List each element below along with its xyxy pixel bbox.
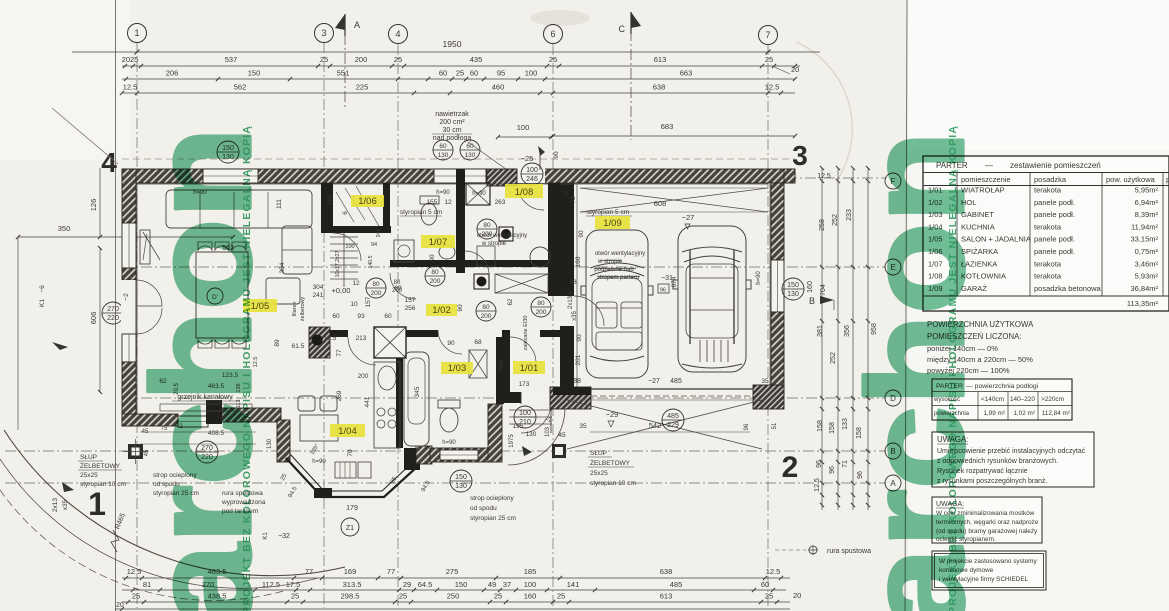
driveway X <box>567 400 762 449</box>
svg-text:35: 35 <box>761 378 769 385</box>
svg-text:200: 200 <box>355 55 368 64</box>
svg-text:37: 37 <box>503 580 511 589</box>
svg-text:179: 179 <box>346 505 358 512</box>
svg-text:styropian 10 cm: styropian 10 cm <box>80 481 126 488</box>
svg-text:1: 1 <box>88 486 106 522</box>
yellow room labels <box>513 361 545 374</box>
svg-text:posadzka: posadzka <box>1034 175 1067 184</box>
svg-text:29: 29 <box>403 580 411 589</box>
svg-text:704: 704 <box>820 284 827 296</box>
left dimensions <box>99 168 101 237</box>
svg-text:96: 96 <box>829 466 836 474</box>
svg-text:246: 246 <box>526 176 538 183</box>
svg-text:638: 638 <box>653 83 666 92</box>
left wall window 2 <box>122 334 136 362</box>
svg-text:12.5: 12.5 <box>324 335 337 342</box>
svg-text:12.5: 12.5 <box>123 83 138 92</box>
svg-text:25: 25 <box>399 592 407 601</box>
Z1 bubble <box>341 518 359 536</box>
svg-text:strop ocieplony: strop ocieplony <box>470 495 514 502</box>
terrace door opening left <box>121 280 137 334</box>
svg-text:60: 60 <box>466 143 474 150</box>
car 2 suv <box>673 226 751 372</box>
scan artifact arc <box>796 42 852 182</box>
svg-text:80: 80 <box>431 269 439 276</box>
spizarka / bath wall <box>383 183 390 233</box>
svg-text:100: 100 <box>517 123 530 132</box>
svg-text:250: 250 <box>447 592 460 601</box>
svg-text:460: 460 <box>492 83 505 92</box>
svg-text:683: 683 <box>661 122 674 131</box>
svg-text:246: 246 <box>376 229 382 238</box>
wiatrolap south wall <box>502 392 572 403</box>
svg-text:150: 150 <box>248 69 261 78</box>
svg-text:panele podł.: panele podł. <box>1034 210 1075 219</box>
svg-text:68: 68 <box>569 279 577 286</box>
svg-text:542: 542 <box>649 421 662 430</box>
svg-text:130: 130 <box>465 152 476 159</box>
garage door from hall arc <box>574 296 604 326</box>
svg-text:537: 537 <box>225 55 238 64</box>
svg-text:210: 210 <box>519 419 531 426</box>
svg-text:2: 2 <box>782 451 799 484</box>
svg-text:252: 252 <box>830 352 837 364</box>
svg-text:485: 485 <box>670 580 683 589</box>
svg-text:30 cm: 30 cm <box>442 127 461 134</box>
attic hatch X-box <box>495 274 548 293</box>
svg-text:93: 93 <box>357 313 365 320</box>
svg-text:100: 100 <box>525 69 538 78</box>
svg-text:1950: 1950 <box>443 39 462 49</box>
boiler tank <box>530 247 550 267</box>
svg-text:−27: −27 <box>682 213 695 222</box>
svg-text:archon: archon <box>839 131 993 611</box>
svg-text:h=90: h=90 <box>756 271 762 285</box>
svg-text:12.5: 12.5 <box>766 567 781 576</box>
svg-text:x35: x35 <box>572 311 578 321</box>
svg-text:20: 20 <box>793 591 801 600</box>
svg-text:200: 200 <box>430 278 441 285</box>
spizarka south wall <box>321 226 391 233</box>
svg-text:od spodu: od spodu <box>470 505 497 512</box>
svg-text:229: 229 <box>667 422 679 429</box>
bath 1/03 south wall <box>430 448 490 462</box>
garage X brace top <box>580 188 768 212</box>
svg-text:45: 45 <box>558 432 566 439</box>
svg-text:3: 3 <box>321 28 326 38</box>
svg-text:12.5: 12.5 <box>817 173 831 180</box>
note box 1 <box>932 432 1094 487</box>
entrance side canopy arc <box>508 408 565 465</box>
svg-text:61.5: 61.5 <box>292 343 305 350</box>
circled 270/220 left <box>102 302 124 324</box>
kotlownia door gap top <box>517 168 545 183</box>
flue block hall <box>474 274 489 289</box>
svg-text:96: 96 <box>816 460 823 468</box>
svg-text:25: 25 <box>320 55 328 64</box>
svg-text:485: 485 <box>667 413 679 420</box>
kitchen counter <box>374 362 400 448</box>
svg-text:25: 25 <box>765 592 773 601</box>
terrace outline <box>17 237 19 430</box>
svg-text:140.5: 140.5 <box>368 255 374 268</box>
tv cabinet <box>140 230 150 264</box>
svg-text:206: 206 <box>166 69 179 78</box>
svg-text:60: 60 <box>761 580 769 589</box>
svg-text:638: 638 <box>660 567 673 576</box>
svg-text:112,84 m²: 112,84 m² <box>1042 410 1070 417</box>
svg-text:K1: K1 <box>39 299 46 307</box>
vents in top wall <box>434 169 458 183</box>
svg-text:562: 562 <box>234 83 247 92</box>
svg-text:12: 12 <box>352 280 360 287</box>
svg-text:90: 90 <box>429 254 436 262</box>
svg-text:130: 130 <box>438 152 449 159</box>
bath 1/07 toilet <box>420 196 439 204</box>
svg-text:200 cm²: 200 cm² <box>439 119 465 126</box>
svg-text:panele podł.: panele podł. <box>1034 198 1075 207</box>
svg-text:150: 150 <box>787 282 799 289</box>
svg-text:5: 5 <box>564 191 568 198</box>
svg-text:51: 51 <box>772 422 778 429</box>
svg-text:25: 25 <box>291 592 299 601</box>
door arcs interior <box>333 233 361 261</box>
section flag C <box>630 12 632 34</box>
spizarka shelves <box>336 192 354 222</box>
svg-text:25: 25 <box>557 592 565 601</box>
svg-text:6: 6 <box>550 29 555 39</box>
frame line right <box>905 0 907 611</box>
sofa L-shape <box>166 190 312 304</box>
svg-text:pow. użytkowa: pow. użytkowa <box>1106 175 1156 184</box>
left wall <box>122 169 136 223</box>
slup pier garage <box>552 444 566 458</box>
svg-text:−25: −25 <box>521 154 534 163</box>
svg-text:113,35m²: 113,35m² <box>1127 299 1159 308</box>
svg-text:80: 80 <box>537 300 545 307</box>
svg-text:terakota: terakota <box>1034 186 1062 195</box>
grid bubbles <box>128 24 147 43</box>
svg-text:68: 68 <box>474 339 482 346</box>
svg-text:130: 130 <box>787 291 799 298</box>
svg-text:1/04: 1/04 <box>338 426 357 437</box>
svg-text:ŻELBETOWY: ŻELBETOWY <box>590 458 631 467</box>
svg-text:90: 90 <box>447 340 455 347</box>
svg-text:+0,00: +0,00 <box>332 286 351 295</box>
inner face lines of outer walls <box>136 183 768 185</box>
svg-text:8,39m²: 8,39m² <box>1135 210 1159 219</box>
kitchen bench corner <box>298 396 338 441</box>
svg-text:130: 130 <box>526 431 537 438</box>
right dimension columns <box>821 168 823 510</box>
frame line left <box>115 0 117 611</box>
svg-text:49: 49 <box>488 580 496 589</box>
svg-text:298.5: 298.5 <box>341 592 360 601</box>
svg-text:25x25: 25x25 <box>80 472 98 479</box>
svg-text:−2: −2 <box>544 417 552 424</box>
svg-text:674: 674 <box>671 276 678 287</box>
svg-text:225: 225 <box>356 83 369 92</box>
svg-text:zalecane EI30: zalecane EI30 <box>523 316 529 351</box>
svg-text:25: 25 <box>494 592 502 601</box>
svg-text:256: 256 <box>405 305 416 312</box>
svg-text:77: 77 <box>387 567 395 576</box>
dining table <box>196 252 248 338</box>
svg-text:77: 77 <box>305 567 313 576</box>
svg-text:11,94m²: 11,94m² <box>1131 222 1158 231</box>
svg-text:80: 80 <box>372 281 380 288</box>
note box 3 schiedel <box>932 551 1046 590</box>
section letter bubbles <box>885 173 901 189</box>
svg-text:2025: 2025 <box>122 55 139 64</box>
svg-text:150: 150 <box>455 580 468 589</box>
bay corner blocks <box>314 488 332 498</box>
svg-text:173: 173 <box>519 381 530 388</box>
svg-text:3,46m²: 3,46m² <box>1135 259 1159 268</box>
svg-text:1/07: 1/07 <box>429 237 448 248</box>
salon window left <box>122 223 136 268</box>
svg-text:panele podł.: panele podł. <box>1034 247 1075 256</box>
svg-text:70: 70 <box>347 449 354 457</box>
svg-text:1/03: 1/03 <box>448 363 467 374</box>
kitchen / bath wall <box>396 337 403 448</box>
svg-text:275: 275 <box>446 567 459 576</box>
svg-text:C: C <box>619 24 626 34</box>
svg-text:terakota: terakota <box>1034 272 1062 281</box>
svg-text:25: 25 <box>765 55 773 64</box>
svg-text:94: 94 <box>371 242 377 248</box>
svg-text:styropian 5 cm: styropian 5 cm <box>400 209 442 216</box>
svg-text:169: 169 <box>344 567 357 576</box>
stair block near Z1 <box>335 462 356 478</box>
svg-text:213: 213 <box>356 335 367 342</box>
svg-text:1,02 m²: 1,02 m² <box>1013 410 1035 417</box>
svg-text:270: 270 <box>107 306 119 313</box>
svg-text:304: 304 <box>313 284 324 291</box>
roof overhang dash line <box>122 158 795 160</box>
left wall lower <box>122 362 136 426</box>
entrance steps <box>509 409 552 411</box>
svg-text:33,15m²: 33,15m² <box>1130 235 1158 244</box>
kotlownia entry jamb <box>487 169 517 186</box>
bath 1/03 tub <box>404 352 429 446</box>
svg-text:0,75m²: 0,75m² <box>1135 247 1159 256</box>
svg-text:435: 435 <box>470 55 483 64</box>
column pier left <box>128 444 143 459</box>
svg-text:6,94m²: 6,94m² <box>1135 198 1159 207</box>
svg-text:2x13,5: 2x13,5 <box>568 290 574 309</box>
svg-text:archon: archon <box>122 127 280 611</box>
svg-text:h=90: h=90 <box>436 190 450 196</box>
svg-text:25x25: 25x25 <box>590 470 608 477</box>
garage east wall <box>771 183 784 260</box>
svg-text:185: 185 <box>524 567 537 576</box>
svg-text:200: 200 <box>481 313 492 320</box>
svg-text:3: 3 <box>792 140 808 171</box>
washer kotlownia <box>477 246 495 266</box>
svg-text:613: 613 <box>660 592 673 601</box>
salon south window band <box>178 416 208 427</box>
bath 1/03 east wall <box>496 337 504 404</box>
svg-text:105: 105 <box>328 194 334 205</box>
svg-text:h=90: h=90 <box>442 440 456 446</box>
hall south walls <box>390 330 438 337</box>
svg-text:1/02: 1/02 <box>432 305 451 316</box>
svg-text:−29: −29 <box>606 410 619 419</box>
svg-text:258: 258 <box>819 219 826 231</box>
scan diagonal top-left <box>52 108 118 164</box>
car 1 sedan <box>581 230 653 378</box>
salon S corner block <box>206 400 222 424</box>
svg-text:styropian 5 cm: styropian 5 cm <box>587 209 629 216</box>
svg-text:h=90: h=90 <box>472 191 486 197</box>
svg-text:5,95m²: 5,95m² <box>1135 186 1159 195</box>
svg-text:200: 200 <box>371 290 382 297</box>
svg-text:stropem parteru: stropem parteru <box>597 275 639 281</box>
svg-text:155: 155 <box>427 199 438 206</box>
kotlownia south wall <box>465 260 552 267</box>
svg-text:60: 60 <box>439 69 447 78</box>
svg-text:157: 157 <box>365 296 372 307</box>
kotlownia chimney block <box>466 183 490 205</box>
svg-text:141: 141 <box>567 580 580 589</box>
svg-text:60: 60 <box>332 313 340 320</box>
svg-text:200: 200 <box>536 309 547 316</box>
svg-text:90: 90 <box>457 304 464 312</box>
svg-text:80: 80 <box>483 222 491 229</box>
svg-text:381: 381 <box>817 325 824 337</box>
svg-text:w stropie: w stropie <box>597 259 623 265</box>
svg-text:7: 7 <box>765 30 770 40</box>
svg-text:Z1: Z1 <box>346 525 354 532</box>
svg-text:90: 90 <box>576 334 583 342</box>
svg-text:4: 4 <box>395 29 400 39</box>
wiatrolap west wall <box>502 330 510 392</box>
bath 1/07 south wall <box>390 260 465 267</box>
svg-text:12.5: 12.5 <box>814 478 821 492</box>
svg-text:663: 663 <box>680 69 693 78</box>
svg-text:485: 485 <box>670 378 682 385</box>
svg-text:nawietrzak: nawietrzak <box>435 111 469 118</box>
svg-text:terakota: terakota <box>1034 222 1062 231</box>
svg-text:160: 160 <box>575 256 582 267</box>
front door arc <box>520 392 522 404</box>
top wall <box>122 169 795 183</box>
dims under salon <box>140 431 256 433</box>
garage west wall <box>560 183 574 296</box>
svg-text:10: 10 <box>350 301 358 308</box>
kotlownia / garage wall <box>548 183 560 296</box>
top dimension lines <box>72 51 820 53</box>
svg-text:60: 60 <box>384 313 392 320</box>
svg-text:36,84m²: 36,84m² <box>1130 284 1158 293</box>
svg-text:201: 201 <box>575 354 582 365</box>
wall right of bay <box>416 446 432 464</box>
svg-text:1975: 1975 <box>509 434 515 448</box>
svg-text:h=90: h=90 <box>312 459 326 465</box>
svg-text:styropian 10 cm: styropian 10 cm <box>590 480 636 487</box>
svg-text:90: 90 <box>553 151 560 159</box>
garage south wall piers <box>550 387 591 409</box>
east gable wall upper <box>784 169 795 183</box>
salon window top <box>203 169 258 183</box>
salon / spizarka wall <box>321 183 333 232</box>
svg-text:A: A <box>354 20 360 30</box>
svg-text:606: 606 <box>89 312 98 325</box>
svg-text:90: 90 <box>578 230 585 238</box>
svg-text:60: 60 <box>470 69 478 78</box>
svg-text:60: 60 <box>439 143 447 150</box>
svg-text:B: B <box>809 296 815 306</box>
rura spustowa right <box>809 546 817 554</box>
dining south wall <box>222 408 281 422</box>
svg-text:SŁUP: SŁUP <box>80 454 97 461</box>
boiler kotlownia <box>499 227 513 241</box>
svg-text:88: 88 <box>573 378 581 385</box>
svg-text:35: 35 <box>579 423 587 430</box>
svg-text:x35: x35 <box>62 499 69 510</box>
svg-text:25: 25 <box>394 55 402 64</box>
chimney pier <box>309 327 330 358</box>
svg-text:80: 80 <box>394 280 401 286</box>
svg-text:150: 150 <box>455 474 467 481</box>
svg-text:12: 12 <box>444 199 452 206</box>
svg-text:podpewne nad: podpewne nad <box>594 267 633 273</box>
svg-text:160: 160 <box>524 592 537 601</box>
svg-text:zestawienie pomieszczeń: zestawienie pomieszczeń <box>1010 161 1101 170</box>
svg-text:1/06: 1/06 <box>358 196 377 207</box>
kitchen bay window walls <box>286 458 418 497</box>
svg-text:SŁUP: SŁUP <box>590 450 607 457</box>
svg-text:441: 441 <box>364 396 371 407</box>
svg-text:25: 25 <box>549 55 557 64</box>
svg-text:PROJEKT BEZ KOLOROWEGO NAPISU: PROJEKT BEZ KOLOROWEGO NAPISU I HOLOGRAM… <box>241 125 253 611</box>
svg-text:posadzka betonowa: posadzka betonowa <box>1034 284 1102 293</box>
entrance west wall <box>488 404 502 462</box>
svg-text:panele podł.: panele podł. <box>1034 235 1075 244</box>
svg-text:350: 350 <box>58 224 71 233</box>
svg-text:64.5: 64.5 <box>418 580 433 589</box>
svg-text:1/08: 1/08 <box>515 187 534 198</box>
svg-text:200: 200 <box>482 231 493 238</box>
svg-text:158: 158 <box>829 422 836 434</box>
floor area table <box>932 379 1072 420</box>
svg-text:96: 96 <box>660 288 666 294</box>
shaft pier with X <box>374 327 406 358</box>
svg-text:100: 100 <box>519 410 531 417</box>
svg-text:12.5: 12.5 <box>765 83 780 92</box>
svg-text:73: 73 <box>570 196 577 204</box>
svg-text:terakota: terakota <box>1034 259 1062 268</box>
svg-text:96: 96 <box>744 423 750 430</box>
svg-text:5,93m²: 5,93m² <box>1135 272 1159 281</box>
svg-text:200: 200 <box>392 288 403 294</box>
svg-text:PROJEKT BEZ KOLOROWEGO NAPISU: PROJEKT BEZ KOLOROWEGO NAPISU I HOLOGRAM… <box>947 125 959 611</box>
svg-text:1: 1 <box>134 28 139 38</box>
svg-text:−27: −27 <box>648 378 660 385</box>
svg-text:220: 220 <box>107 315 119 322</box>
svg-text:304: 304 <box>279 262 286 273</box>
svg-text:otwór wentylacyjny: otwór wentylacyjny <box>595 251 645 257</box>
svg-text:200: 200 <box>358 373 369 380</box>
salon SW corner leg <box>122 414 178 426</box>
svg-text:25: 25 <box>456 69 464 78</box>
note box 2 <box>932 497 1042 543</box>
svg-text:>220cm: >220cm <box>1041 396 1064 403</box>
svg-text:100: 100 <box>524 580 537 589</box>
svg-text:140–220: 140–220 <box>1010 396 1035 403</box>
svg-text:95: 95 <box>497 69 505 78</box>
